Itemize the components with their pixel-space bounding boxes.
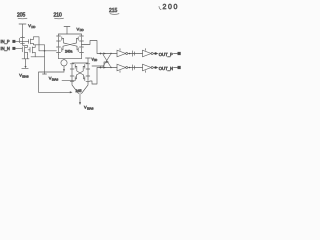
wire 2nd latch bottom to row 2 xyxy=(90,68,100,85)
power VDD (stage 205) xyxy=(19,23,35,36)
node dot X right top xyxy=(110,53,111,54)
svg-text:205: 205 xyxy=(17,13,26,19)
arrowhead row2 xyxy=(103,66,106,68)
svg-text:215: 215 xyxy=(109,8,118,14)
wire node bar xyxy=(22,53,29,59)
node label 205 xyxy=(17,13,27,19)
wire output rail C xyxy=(31,45,45,57)
wire M2 drain to node xyxy=(34,37,40,51)
arrowhead vbias rail xyxy=(70,91,73,93)
wire cross-couple (stage 210) xyxy=(59,39,82,47)
label VBIAS (stage 205) xyxy=(19,73,29,79)
node dot row2 in xyxy=(100,67,102,69)
transistor M13 (2nd latch NMOS right) xyxy=(84,75,90,83)
wire row2 mid xyxy=(128,67,143,69)
svg-text:BIAS: BIAS xyxy=(52,77,59,81)
svg-text:200: 200 xyxy=(163,4,179,11)
cap tick row1 xyxy=(133,51,135,56)
label VBIAS (stage 210) xyxy=(43,74,59,81)
svg-text:BIAS: BIAS xyxy=(87,107,94,111)
current source I1 (stage 210 tail) xyxy=(61,60,67,72)
wire row2 out xyxy=(153,67,158,69)
wire row1 out xyxy=(153,53,158,55)
wire row1 mid xyxy=(128,53,143,55)
node dot row2 out xyxy=(154,66,157,69)
transistor M10 (2nd latch PMOS left) xyxy=(70,64,77,69)
node dot rail B xyxy=(44,50,46,52)
transistor M1 (tail PMOS, stage 205) xyxy=(19,37,27,46)
wire vbias rail to tail gate xyxy=(39,91,71,93)
node dot row1 mid xyxy=(129,53,131,55)
node label 210 xyxy=(54,13,64,19)
wire input to 2nd latch xyxy=(62,80,75,82)
arrowhead row feed xyxy=(106,61,109,63)
input pad IN_P xyxy=(1,39,16,44)
arrowhead row1 xyxy=(103,52,106,54)
wire IN_P to gate xyxy=(15,40,28,42)
output label OUT_P xyxy=(159,52,181,57)
svg-text:DD: DD xyxy=(94,60,98,62)
label VBIAS (bottom) xyxy=(84,105,94,111)
wire sources to tail xyxy=(59,55,82,60)
wire output rail A xyxy=(34,44,45,46)
svg-text:DD: DD xyxy=(80,28,84,32)
transistor M4 (mirror) xyxy=(28,45,35,57)
wire tail to vbias rail xyxy=(39,72,65,93)
wire latch out to buffer row 2 xyxy=(92,62,107,66)
inverter U3 (row2 first) xyxy=(117,64,128,71)
wire row2 input xyxy=(101,67,118,69)
node label 215 xyxy=(109,8,119,14)
svg-text:OUT_P: OUT_P xyxy=(159,52,173,57)
figure number 200 xyxy=(159,4,179,11)
node dot row1 out xyxy=(154,52,157,55)
svg-text:210: 210 xyxy=(54,13,63,19)
svg-text:OUT_N: OUT_N xyxy=(159,66,173,71)
current arrow (2nd latch tail) xyxy=(79,102,81,105)
node dot row2 mid xyxy=(129,67,131,69)
svg-text:240a: 240a xyxy=(65,50,73,54)
transistor M8 (latch NMOS left) xyxy=(57,46,64,54)
wire sources to tail (2nd latch) xyxy=(72,83,88,103)
wire row1 input xyxy=(101,53,118,55)
wire cross-couple (2nd latch) xyxy=(72,67,88,77)
wire latch out to buffer row 1 xyxy=(82,41,101,54)
input pad IN_N xyxy=(1,46,16,51)
wire vbias drop xyxy=(44,57,46,74)
wire VDD rail (stage 210) xyxy=(59,33,82,35)
node dot X right bottom xyxy=(110,67,111,68)
svg-text:BIAS: BIAS xyxy=(22,75,29,79)
inverter U1 (row1 first) xyxy=(117,50,128,57)
output label OUT_N xyxy=(159,66,181,71)
wire VDD rail (2nd latch) xyxy=(72,62,88,64)
wire IN_N to gate xyxy=(15,47,22,49)
wire to VBIAS (stage 205) xyxy=(22,59,28,69)
transistor M6 (cross PMOS left) xyxy=(57,34,64,41)
svg-text:IN_P: IN_P xyxy=(1,39,10,44)
inverter supply stubs xyxy=(120,49,146,73)
transistor M2 (input PMOS IN_P) xyxy=(29,37,34,45)
transistor M7 (cross PMOS right) xyxy=(77,34,84,41)
cap tick row2 xyxy=(133,65,135,70)
transistor M12 (2nd latch NMOS left) xyxy=(70,75,76,83)
svg-text:IN_N: IN_N xyxy=(1,46,10,51)
power VDD (stage 210) xyxy=(64,26,84,34)
current arrow (stage 205 tail) xyxy=(24,66,26,68)
wire output rail B (to latch gate) xyxy=(39,50,57,52)
transistor M9 (latch NMOS right) xyxy=(77,46,84,54)
inverter U2 (row1 second) xyxy=(143,50,154,57)
transistor M11 (2nd latch PMOS right) xyxy=(83,64,90,69)
inverter U4 (row2 second) xyxy=(143,64,154,71)
svg-text:DD: DD xyxy=(31,25,35,29)
power VDD (stage 2nd latch) xyxy=(86,58,98,64)
transistor M3 (input NMOS IN_N) xyxy=(22,45,27,54)
node dot row1 in xyxy=(100,53,102,55)
wire cross X between rows xyxy=(103,55,111,67)
